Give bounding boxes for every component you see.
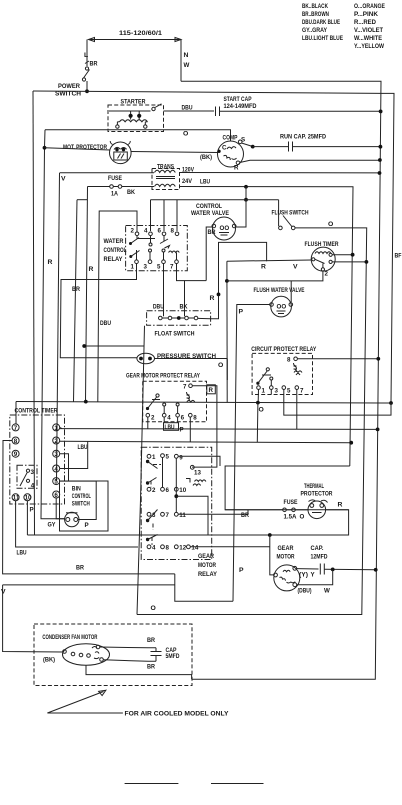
wire CPR pin3 stub [270, 389, 272, 394]
junction dot power rail [85, 89, 89, 93]
wire start cap to right bus [220, 110, 381, 112]
svg-text:(DBU): (DBU) [298, 588, 312, 595]
wire to protector [45, 148, 111, 150]
svg-text:FUSE: FUSE [284, 499, 298, 506]
svg-text:11: 11 [13, 495, 20, 502]
wire L lead [86, 40, 88, 67]
wire circle11 LBU down [16, 501, 138, 547]
svg-text:1: 1 [131, 264, 135, 271]
wire neutral rail to right bus [181, 81, 381, 679]
wire GMPR pin8 stub [189, 417, 191, 442]
wire relay feed rail [151, 199, 279, 201]
svg-text:W...WHITE: W...WHITE [354, 35, 382, 42]
wire LBU rail circle2 to bus A [60, 441, 351, 442]
svg-text:P: P [85, 522, 89, 529]
wire O flush switch to bus B [137, 228, 367, 615]
svg-text:R: R [261, 264, 266, 271]
svg-text:LBU: LBU [78, 444, 88, 451]
svg-text:OO: OO [277, 304, 287, 311]
svg-text:FLUSH SWITCH: FLUSH SWITCH [272, 210, 309, 217]
wire pin11 to thermal rail [178, 510, 248, 515]
wire GMPR pin2 stub [147, 417, 149, 429]
label LBU boxed [164, 417, 184, 434]
capacitor C3 12MFD [320, 564, 324, 575]
svg-text:LBU: LBU [200, 179, 210, 186]
svg-text:P: P [180, 427, 184, 434]
svg-text:RUN CAP. 25MFD: RUN CAP. 25MFD [280, 134, 326, 141]
svg-text:8: 8 [14, 438, 18, 445]
svg-text:OO: OO [220, 225, 230, 232]
wire fan to cap top BR [100, 646, 156, 649]
wire GY drop from O wire [41, 130, 65, 519]
wire O drop from pressure sw joins O rail [226, 359, 228, 381]
svg-text:R: R [48, 259, 53, 266]
wire left outer edge down [33, 91, 35, 535]
svg-text:1.5A: 1.5A [284, 514, 298, 521]
wire pin14 row to gear motor riser [190, 546, 269, 548]
wire from switch to main rail [86, 81, 88, 92]
svg-text:N: N [184, 52, 189, 59]
svg-text:LBU: LBU [17, 550, 27, 557]
wire circle6 to bin switch [56, 498, 64, 519]
svg-text:P: P [30, 507, 34, 514]
wire pressure switch right [155, 358, 228, 360]
svg-text:2: 2 [152, 487, 156, 494]
wire circle5 branch [60, 480, 96, 482]
wire R branch float switch to junction rail [211, 242, 267, 318]
svg-text:POWER: POWER [58, 83, 80, 90]
wire fuse to trans secondary [122, 186, 154, 188]
svg-text:1: 1 [152, 454, 156, 461]
svg-text:7: 7 [14, 425, 18, 432]
svg-text:BR: BR [76, 565, 84, 572]
svg-text:R...RED: R...RED [354, 19, 376, 26]
condenser fan motor M3 [63, 644, 110, 666]
svg-text:Y: Y [311, 572, 316, 579]
wire motor Y to cap C3 [297, 568, 319, 570]
wire junction to flush timer bottom [227, 271, 323, 281]
svg-text:2: 2 [151, 415, 155, 422]
wire comp R to right bus [240, 160, 380, 162]
svg-text:10: 10 [25, 495, 32, 502]
svg-text:GEAR: GEAR [278, 545, 294, 552]
svg-text:BK: BK [127, 189, 135, 196]
svg-text:5: 5 [54, 479, 58, 486]
svg-text:9: 9 [14, 451, 18, 458]
start cap C1 [216, 96, 257, 116]
wire stub to relay pin8 [176, 200, 178, 231]
svg-text:R: R [89, 266, 94, 273]
label R boxed [207, 385, 216, 394]
svg-text:3: 3 [144, 264, 148, 271]
wire protector to compressor [131, 152, 218, 153]
svg-text:C: C [222, 145, 227, 152]
svg-text:CONTROL: CONTROL [196, 203, 222, 210]
svg-text:115-120/60/1: 115-120/60/1 [119, 30, 162, 37]
svg-text:BR: BR [147, 664, 155, 671]
wire O rail horizontal [16, 402, 391, 404]
svg-text:6: 6 [166, 487, 170, 494]
svg-text:GEAR MOTOR PROTECT RELAY: GEAR MOTOR PROTECT RELAY [126, 373, 200, 380]
svg-text:10: 10 [179, 487, 186, 494]
wire float switch left down to O return [137, 326, 145, 615]
wire flush switch feed [278, 200, 280, 227]
svg-text:Y...YELLOW: Y...YELLOW [354, 43, 384, 50]
gear motor protect relay K3 [143, 381, 207, 422]
svg-text:CONDENSER FAN MOTOR: CONDENSER FAN MOTOR [42, 634, 97, 641]
wire BR tick [85, 61, 89, 64]
svg-text:(BK): (BK) [200, 154, 212, 161]
wire 120V line to trans [60, 172, 155, 174]
svg-text:BR: BR [147, 637, 155, 644]
wire DBU from starter to start cap [164, 110, 215, 112]
svg-text:CIRCUIT PROTECT RELAY: CIRCUIT PROTECT RELAY [251, 346, 316, 353]
junction dot mot protector [43, 146, 47, 150]
fuse F2 1.5A [283, 499, 305, 521]
svg-text:CAP.: CAP. [311, 545, 324, 552]
wire N lead [180, 40, 182, 82]
gear motor M1 [274, 565, 300, 591]
wire flush timer lower right to bus B [332, 261, 366, 263]
run cap C2 [280, 134, 326, 152]
svg-text:3: 3 [31, 469, 35, 476]
wire relay pin1 to pressure switch [60, 264, 137, 358]
svg-text:LBU.LIGHT BLUE: LBU.LIGHT BLUE [302, 35, 343, 42]
bin control switch SW3 [65, 512, 79, 526]
svg-text:SWITCH: SWITCH [72, 501, 90, 508]
svg-text:V: V [1, 589, 6, 596]
svg-text:O...ORANGE: O...ORANGE [354, 3, 385, 10]
svg-text:P...PINK: P...PINK [354, 11, 378, 18]
svg-text:WATER: WATER [104, 238, 124, 245]
wire relay pin7 down to valve riser [177, 264, 207, 281]
svg-text:7: 7 [300, 388, 304, 395]
dimension line with arrowheads [89, 38, 182, 42]
svg-text:O: O [300, 514, 305, 521]
svg-text:W: W [184, 62, 190, 69]
junction dot [379, 110, 383, 114]
bin control switch box [60, 481, 109, 531]
svg-text:RELAY: RELAY [104, 256, 123, 263]
wire fuse to protector [295, 509, 308, 511]
svg-text:P: P [239, 567, 244, 574]
pressure switch PS1 [137, 353, 216, 364]
wire junction riser down to O rail [226, 261, 228, 402]
svg-text:CONTROL: CONTROL [72, 493, 91, 500]
wire fan bottom out [86, 665, 192, 679]
wire drop to flush water valve right [290, 281, 292, 302]
thermal protector TP1 [308, 500, 328, 519]
svg-text:START CAP: START CAP [224, 96, 252, 103]
svg-text:12: 12 [179, 545, 186, 552]
svg-text:DBU.DARK BLUE: DBU.DARK BLUE [302, 19, 340, 26]
svg-text:2: 2 [54, 438, 58, 445]
wire cap to bus C [324, 568, 375, 570]
svg-text:R: R [210, 295, 215, 302]
wire V branch 120V primary [57, 173, 60, 481]
svg-text:CONTROL TIMER: CONTROL TIMER [15, 408, 58, 415]
wire motor W loop [297, 569, 333, 584]
wire O rail into circle7 [15, 402, 17, 424]
svg-text:O: O [183, 131, 188, 138]
svg-text:BK: BK [180, 304, 188, 311]
capacitor C4 5MFD [151, 648, 162, 662]
svg-text:O: O [328, 221, 333, 228]
svg-text:L: L [84, 52, 88, 59]
svg-text:24V: 24V [182, 178, 192, 185]
svg-text:S: S [241, 137, 245, 144]
wire stub to relay pin6 [163, 200, 165, 231]
svg-text:DBU: DBU [100, 320, 111, 327]
svg-text:5MFD: 5MFD [166, 653, 180, 660]
svg-text:MOTOR: MOTOR [198, 562, 216, 569]
svg-text:BF: BF [395, 253, 402, 260]
wire circle1 stub [55, 429, 57, 431]
wire bottom rail W1 [27, 466, 349, 535]
svg-text:4: 4 [167, 415, 171, 422]
svg-text:W: W [324, 588, 330, 595]
svg-text:V: V [61, 176, 66, 183]
svg-text:1: 1 [262, 388, 266, 395]
svg-text:GY..GRAY: GY..GRAY [302, 27, 327, 34]
wire comp S to run cap [242, 143, 253, 147]
svg-text:CONTROL: CONTROL [104, 247, 127, 254]
svg-text:V...VIOLET: V...VIOLET [354, 27, 384, 34]
bottom rule 2 [211, 783, 264, 785]
wire pin10 junction to W1 rail [174, 494, 178, 498]
svg-text:124-149MFD: 124-149MFD [224, 103, 257, 110]
svg-text:RELAY: RELAY [198, 571, 217, 578]
svg-text:5: 5 [157, 264, 161, 271]
wire P feed to flush water valve [233, 305, 270, 602]
wire R/V rail to flush timer [227, 260, 312, 261]
svg-text:DBU: DBU [153, 304, 164, 311]
svg-text:WATER VALVE: WATER VALVE [191, 210, 229, 217]
motor protector MP1 [110, 141, 132, 164]
svg-text:FLOAT SWITCH: FLOAT SWITCH [155, 331, 195, 338]
flush water valve V2 [270, 296, 293, 317]
wire 24V LBU to right bus A [180, 187, 354, 467]
bottom rule 1 [125, 783, 179, 785]
wire circle3 branch [60, 454, 69, 481]
wire fuse branch down [88, 186, 110, 188]
svg-text:14: 14 [191, 545, 198, 552]
svg-text:BR..BROWN: BR..BROWN [302, 11, 329, 18]
wire protector to W1 riser [326, 509, 349, 511]
svg-text:3: 3 [275, 388, 279, 395]
LEGEND [302, 3, 385, 50]
svg-text:GY: GY [48, 522, 57, 529]
svg-text:8: 8 [171, 228, 175, 235]
compressor COMP [217, 135, 245, 172]
svg-text:O: O [218, 362, 223, 369]
flush switch SW2 [272, 210, 309, 230]
wire thermal rail left segment [225, 509, 283, 511]
svg-text:4: 4 [31, 483, 35, 490]
svg-text:8: 8 [193, 415, 197, 422]
svg-text:TRANS: TRANS [157, 164, 174, 171]
wire fan to cap bottom BR [103, 660, 156, 662]
wire flush timer upper right to bus A [332, 254, 353, 256]
flush timer M2 [311, 247, 335, 271]
svg-text:FOR AIR COOLED MODEL ONLY: FOR AIR COOLED MODEL ONLY [125, 711, 229, 718]
svg-text:LBU: LBU [165, 424, 175, 431]
svg-text:BK..BLACK: BK..BLACK [302, 3, 328, 10]
svg-text:BR: BR [90, 61, 98, 68]
arrow for air cooled note [47, 690, 123, 713]
float switch FS1 [147, 311, 211, 326]
svg-text:8: 8 [287, 357, 291, 364]
svg-text:STARTER: STARTER [121, 99, 146, 106]
wire circle8 to BR loop [3, 441, 175, 574]
svg-text:(Y): (Y) [299, 572, 308, 579]
wire BR branch vertical [77, 199, 88, 201]
svg-text:2: 2 [131, 228, 135, 235]
wire bin switch right to LBU loop [78, 481, 96, 519]
wire 120V to right bus [180, 172, 380, 174]
wire CPR pin7 to cross rail [296, 389, 298, 429]
svg-text:BR: BR [208, 229, 216, 236]
svg-text:7: 7 [166, 512, 170, 519]
svg-text:DBU: DBU [182, 105, 193, 112]
svg-text:R: R [338, 502, 343, 509]
wire BK cross link [84, 345, 144, 347]
svg-text:6: 6 [158, 228, 162, 235]
wire relay pin2 up-left [98, 211, 137, 402]
svg-text:MOTOR: MOTOR [277, 554, 295, 561]
starter box [108, 99, 164, 132]
wire CPR pin1 to O rail [257, 389, 259, 401]
wire GMPR pin7 to R line down to pin13 [192, 386, 217, 467]
power switch SW1 [55, 67, 90, 98]
wire O from starter bottom [45, 130, 231, 141]
fuse F1 1A [108, 175, 135, 198]
wire relay pin5 down DBU to float [163, 264, 165, 311]
wire valve right up to LBU junction [236, 200, 246, 227]
svg-text:6: 6 [54, 492, 58, 499]
svg-text:2: 2 [325, 271, 329, 278]
svg-text:4: 4 [144, 228, 148, 235]
svg-text:COMP: COMP [223, 135, 238, 142]
svg-text:P: P [239, 309, 244, 316]
wire V rail bottom [3, 584, 175, 586]
wire circle4 branch [60, 441, 88, 468]
gear motor relay K4 [141, 447, 212, 559]
svg-text:4: 4 [152, 545, 156, 552]
svg-text:3: 3 [54, 451, 58, 458]
wire LBU drop [245, 187, 247, 200]
water control relay K1 [126, 226, 188, 271]
svg-text:7: 7 [183, 384, 187, 391]
svg-text:(BK): (BK) [43, 657, 55, 664]
wire valve left to WCR pin7 riser [206, 227, 212, 281]
svg-text:PROTECTOR: PROTECTOR [301, 491, 333, 498]
wire CPR pin5 down and around [284, 389, 391, 415]
svg-text:V: V [293, 264, 298, 271]
svg-text:1A: 1A [111, 191, 118, 198]
svg-text:R: R [234, 165, 239, 172]
wire CPR pin8 to bus C [297, 358, 378, 360]
svg-text:5: 5 [166, 454, 170, 461]
wire stub to relay pin4 [150, 200, 152, 231]
wire pin9 row to bus A loop [178, 456, 220, 466]
svg-text:9: 9 [179, 455, 183, 462]
svg-text:5: 5 [287, 388, 291, 395]
svg-text:R: R [209, 387, 214, 394]
svg-text:4: 4 [54, 466, 58, 473]
wire O drop to LBU rail [256, 403, 259, 443]
svg-text:BR: BR [241, 512, 249, 519]
svg-text:6: 6 [181, 415, 185, 422]
svg-text:12MFD: 12MFD [311, 554, 328, 561]
control water valve V1 [212, 217, 236, 240]
svg-text:FLUSH WATER VALVE: FLUSH WATER VALVE [254, 287, 305, 294]
condenser fan motor box [34, 624, 192, 686]
wire circle10 P down [26, 501, 28, 535]
wire cross rail circle1 to bus C [60, 428, 378, 431]
svg-text:FUSE: FUSE [108, 175, 122, 182]
junction dot LBU [244, 185, 248, 189]
circuit protect relay K2 [252, 353, 312, 394]
svg-text:7: 7 [170, 264, 174, 271]
svg-text:BIN: BIN [72, 486, 81, 493]
transformer T1 [152, 164, 180, 190]
svg-text:BR: BR [72, 286, 80, 293]
wire top rail (outer) [33, 91, 394, 403]
svg-text:11: 11 [179, 512, 186, 519]
control timer TM1 [10, 415, 65, 504]
svg-text:O: O [259, 407, 264, 414]
wire gear motor riser [270, 535, 274, 575]
svg-text:8: 8 [166, 545, 170, 552]
svg-text:THERMAL: THERMAL [304, 483, 324, 490]
svg-text:O: O [151, 605, 156, 612]
wire BK drop to float [184, 280, 186, 310]
svg-text:13: 13 [194, 470, 201, 477]
wire P return loop [175, 574, 233, 601]
